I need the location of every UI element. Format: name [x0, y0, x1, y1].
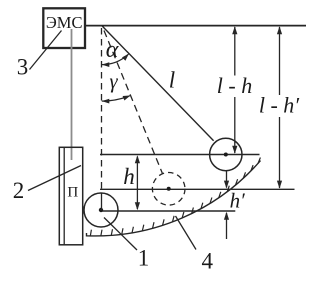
leader line to label 1: [104, 218, 137, 251]
dimension h' lower arrow: [226, 213, 228, 239]
ball intermediate position (dashed): [152, 173, 185, 206]
leader line to label 4: [176, 216, 197, 250]
scale tick marks: [90, 158, 260, 237]
support beam top line: [85, 25, 306, 27]
angle alpha arc: [102, 54, 129, 65]
svg-text:α: α: [106, 37, 119, 63]
thread at angle gamma (dashed): [104, 31, 162, 174]
ball deflected position: [210, 138, 242, 170]
level line through dashed ball center: [100, 188, 295, 190]
svg-text:h: h: [123, 164, 135, 189]
leader line to label 3: [30, 31, 62, 70]
svg-text:ЭМС: ЭМС: [46, 13, 83, 32]
level line through deflected ball center: [100, 154, 260, 156]
svg-text:3: 3: [17, 55, 29, 80]
svg-text:П: П: [67, 185, 78, 201]
electromagnet box U3 (ЭМС): [43, 8, 85, 48]
svg-text:4: 4: [202, 248, 214, 273]
svg-text:1: 1: [138, 246, 150, 271]
suspension thread deflected position: [102, 26, 214, 141]
dimension h double arrow: [136, 157, 138, 210]
svg-text:l - h: l - h: [217, 73, 252, 98]
ball 1 at rest position: [84, 193, 118, 227]
svg-text:h′: h′: [230, 189, 246, 213]
svg-text:γ: γ: [109, 71, 118, 93]
curved scale item 4: [87, 161, 261, 236]
dimension h' upper arrow: [226, 171, 228, 188]
gray cable from ЭМС box down to plate: [71, 29, 73, 160]
leader line to label 2: [28, 166, 81, 191]
svg-text:l - h′: l - h′: [259, 93, 300, 118]
dimension l-h double arrow: [234, 27, 236, 76]
plate item 2: [59, 147, 82, 245]
plate inner line: [63, 147, 65, 245]
dimension l-h' double arrow: [279, 27, 281, 95]
level line through rest ball center: [101, 210, 236, 212]
svg-text:l: l: [169, 68, 175, 93]
angle gamma arc: [102, 96, 131, 102]
svg-text:2: 2: [13, 178, 25, 203]
vertical reference line (dashed): [101, 28, 103, 193]
